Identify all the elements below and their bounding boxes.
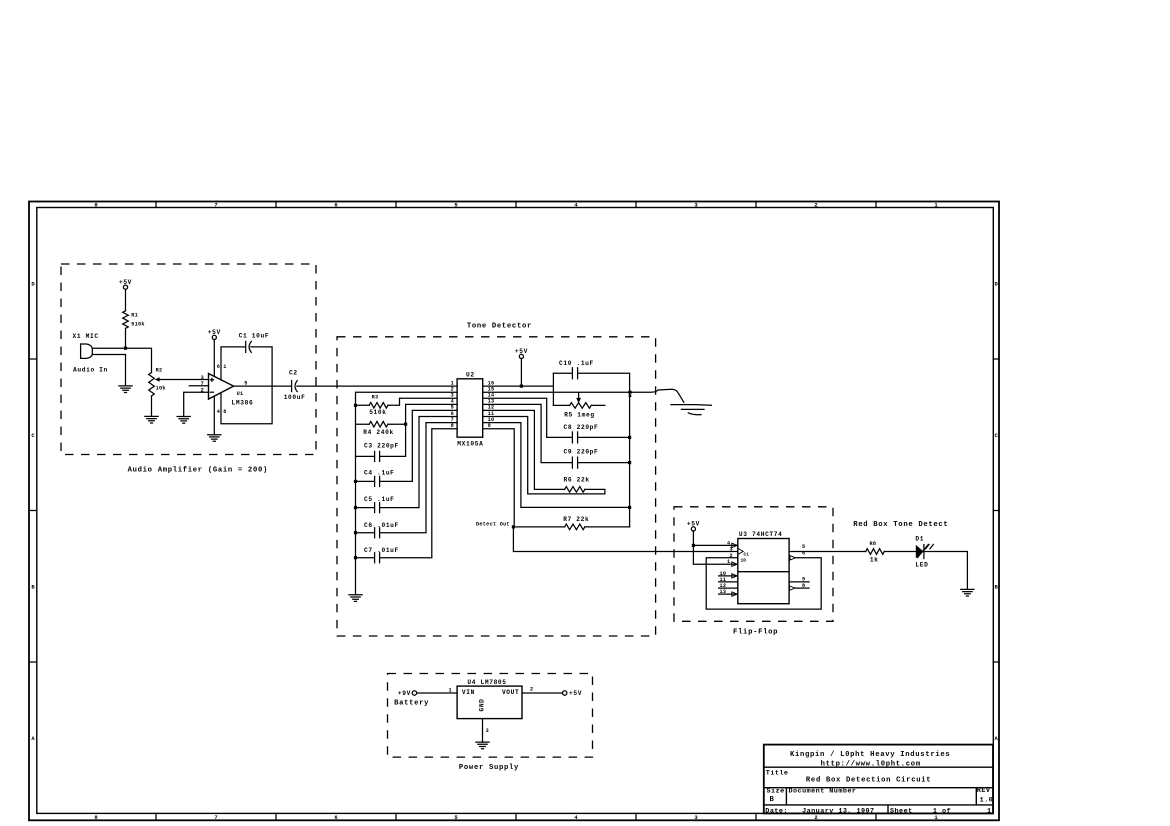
svg-text:B: B [770,796,775,804]
svg-text:11: 11 [720,577,727,583]
svg-text:Tone Detector: Tone Detector [467,323,532,331]
capacitor C2 [291,381,293,392]
svg-text:C1: C1 [744,551,750,557]
wire mic top to R2 node [92,348,151,372]
wire R2 to ground [151,396,153,416]
ground U1 pin2 [177,417,190,424]
node pin10 bus junction [628,506,631,509]
wire detect out to U3 clock [513,527,737,552]
svg-text:R1: R1 [131,313,138,319]
svg-text:R2: R2 [156,368,163,374]
svg-text:5: 5 [802,544,805,550]
IC U2 body [457,379,483,437]
svg-text:U2: U2 [466,371,475,378]
svg-text:1 of: 1 of [933,807,951,815]
svg-text:R5 1meg: R5 1meg [564,411,595,418]
regulator U4 body [457,686,522,719]
capacitor C1 [245,341,247,352]
R5 wiper [578,392,580,398]
node C4 bus junction [354,480,357,483]
node R4 right junction [404,423,407,426]
svg-text:2: 2 [530,687,533,693]
wire D1 cathode to ground [924,552,968,590]
resistor R6 [565,487,585,493]
U1 minus mark [210,391,213,393]
svg-text:Detect Out: Detect Out [476,521,510,527]
svg-text:+5V: +5V [515,348,528,355]
U3 pin8 bubble [790,586,795,590]
wire U2 pin14 to C8 [483,398,572,437]
ground R2 [145,416,158,423]
R2 wiper arrow [155,377,160,382]
svg-text:13: 13 [720,589,727,595]
U3 lower pin11 stub [719,581,738,583]
wire U2 pin13 to C9 [483,404,572,462]
border column numbers top [94,201,938,208]
IC U3 body [738,539,789,604]
U3 lower pin12 stub [719,587,738,589]
node mic/R1/R2 junction [124,347,127,350]
ground power supply [476,742,489,749]
resistor R7 [565,524,585,530]
svg-text:LM386: LM386 [232,399,254,406]
capacitor C6 [375,528,380,538]
svg-text:510k: 510k [131,321,145,327]
flip-flop section dashed box [674,507,833,622]
+5V output terminal [563,691,567,695]
U3 pin10 bubble [732,574,737,578]
C4 leads to U2 pin5 [356,410,458,481]
border zone ticks [29,202,999,821]
svg-text:6: 6 [334,814,337,821]
+9V battery terminal [412,691,416,695]
microphone X1 [81,344,93,358]
svg-text:C7 .01uF: C7 .01uF [364,547,399,554]
wire +5V to R1 [125,289,127,311]
C3 left lead [356,455,375,457]
U3 lower pin13 stub [719,593,738,595]
R5 leads [553,404,605,406]
wire R8 to D1 [884,551,916,553]
svg-text:1: 1 [449,687,452,693]
C7 leads to U2 pin8 [356,429,458,558]
svg-text:+5V: +5V [208,329,221,336]
wire +5V to U2 pin16 line [520,359,522,387]
wire R2 wiper to U1 pin3 [159,379,208,381]
svg-text:Red Box Detection Circuit: Red Box Detection Circuit [806,777,931,785]
+5V supply mic bias [123,285,127,289]
U3 pin1 bubble [732,562,737,566]
ground U1 pin4 [208,435,221,442]
R6 right lead to U2 pin11 [483,417,605,494]
wire mic bottom to ground [92,355,125,386]
svg-text:100uF: 100uF [284,394,306,401]
node +5V pin4 junction [692,544,695,547]
svg-text:C3 220pF: C3 220pF [364,443,399,450]
svg-text:1.0: 1.0 [980,796,994,804]
D1 emission arrows [918,544,934,557]
svg-text:7: 7 [214,201,217,208]
capacitor C7 [375,553,380,563]
op-amp U1 triangle [209,374,234,400]
R4 leads [356,423,406,425]
node R3 left junction [354,404,357,407]
C5 leads to U2 pin6 [356,417,458,508]
svg-text:3: 3 [730,546,733,552]
node C9 bus junction [628,461,631,464]
svg-text:R3: R3 [372,395,379,401]
svg-text:6: 6 [217,364,220,370]
svg-text:Battery: Battery [394,700,429,708]
wire +5V to U1 pin6 [213,340,215,377]
U2 left pin numbers 1-8 [451,380,454,429]
U3 pin13 bubble [732,592,737,596]
U3 lower pin10 stub [719,575,738,577]
ground left bus [349,595,362,602]
resistor R1 [123,311,129,329]
svg-text:R6 22k: R6 22k [564,477,590,484]
resistor R3 [369,403,388,409]
wire U2 pin15 [483,391,630,393]
U3 pin9 stub [789,581,809,583]
svg-text:R8: R8 [870,541,877,547]
svg-text:+9V: +9V [398,690,411,697]
U3 pin4 bubble [732,543,737,547]
node pin15 junction [628,391,631,394]
C6 leads to U2 pin7 [356,423,458,533]
wire C10/R5 left vertical [552,373,554,405]
wire U1 pin4 to ground [213,396,215,435]
svg-text:U3 74HCT74: U3 74HCT74 [739,531,783,538]
sheet outer border [29,202,999,821]
svg-text:1: 1 [727,559,730,565]
svg-text:9: 9 [802,577,805,583]
audio amplifier section dashed box [61,264,316,455]
node pin16 +5V junction [520,385,523,388]
+5V supply tone detector [519,354,523,358]
svg-text:U1: U1 [237,391,244,397]
svg-text:3: 3 [486,728,489,734]
svg-text:510k: 510k [369,409,386,416]
svg-text:6: 6 [334,201,337,208]
capacitor C5 [375,503,380,513]
svg-text:X1 MIC: X1 MIC [73,333,99,340]
R7 leads [513,526,629,528]
node C8 bus junction [628,436,631,439]
svg-text:4: 4 [217,409,220,415]
svg-text:8: 8 [802,583,805,589]
wire U2 pin16 [483,385,554,387]
wire C1 to U1 pin8 loop [221,347,272,424]
wire U2 pin12 to R6 [483,410,565,489]
node C6 bus junction [354,531,357,534]
svg-text:8: 8 [223,409,226,415]
svg-text:Kingpin / L0pht Heavy Industri: Kingpin / L0pht Heavy Industries [790,751,950,759]
tone detector section dashed box [337,337,656,636]
svg-text:Size: Size [767,788,785,796]
R3 leads [356,398,458,405]
wire right bus [629,392,631,527]
node C7 bus junction [354,556,357,559]
potentiometer R2 [149,373,155,397]
wire U2 pin9 to detect node [483,429,515,527]
ground mic [119,386,132,393]
svg-text:C5 .1uF: C5 .1uF [364,496,395,503]
svg-text:+5V: +5V [687,521,700,528]
svg-text:GND: GND [479,698,486,711]
wire U1 pin2 to ground [184,392,209,416]
svg-text:U4 LM7805: U4 LM7805 [467,679,506,686]
svg-text:LED: LED [915,562,928,569]
svg-text:3: 3 [201,375,204,381]
node R7 detect junction [512,525,515,528]
svg-text:Audio In: Audio In [73,367,108,374]
wire C2 to U2 pin1 [297,385,457,387]
wire U4 GND to ground [482,719,484,743]
svg-text:R4 240k: R4 240k [363,429,394,436]
wire U4 VOUT to +5V [522,692,563,694]
border row letters right [995,281,999,742]
svg-text:7: 7 [214,814,217,821]
svg-text:C4 .1uF: C4 .1uF [364,470,395,477]
U3 pin8 stub [795,587,809,589]
svg-text:REV: REV [977,787,991,795]
capacitor C4 [375,476,380,486]
wire U2 pin4 to C3 [380,404,457,456]
capacitor C3 [375,451,380,461]
capacitor C9 [572,457,577,468]
potentiometer R5 [570,403,592,409]
svg-text:Sheet: Sheet [890,807,913,815]
svg-text:4: 4 [727,540,730,546]
svg-text:1: 1 [223,364,226,370]
wire +5V to U3 pins 4 and 1 [693,531,737,564]
svg-text:C8 220pF: C8 220pF [564,424,599,431]
border column numbers bottom [94,814,938,821]
svg-text:1: 1 [987,807,992,815]
LED D1 [916,545,924,558]
ground LED [961,589,974,596]
title block frame [764,745,993,814]
svg-text:VOUT: VOUT [502,689,519,696]
wire U1 output to C2 [234,385,291,387]
wire squiggle to earth [630,389,684,402]
svg-text:C6 .01uF: C6 .01uF [364,522,399,529]
earth sketch [671,405,711,415]
svg-text:VIN: VIN [462,689,475,696]
svg-text:Red Box Tone Detect: Red Box Tone Detect [853,521,948,529]
sheet inner border [37,208,994,814]
power supply section dashed box [388,674,593,758]
wire +9V to U4 VIN [417,692,458,694]
svg-text:+5V: +5V [569,690,582,697]
svg-text:C10 .1uF: C10 .1uF [559,360,594,367]
svg-text:January 13, 1997: January 13, 1997 [802,807,874,815]
U2 right pin numbers 16-9 [488,380,495,429]
svg-text:C9 220pF: C9 220pF [564,449,599,456]
svg-text:MX105A: MX105A [457,440,483,447]
svg-text:Document Number: Document Number [789,788,857,796]
svg-text:10k: 10k [156,385,166,391]
+5V supply op-amp [212,335,216,339]
svg-text:C2: C2 [289,370,298,377]
C9 right lead [578,462,629,464]
node C5 bus junction [354,506,357,509]
wire U2 pin10 to bus [483,423,630,508]
C10 leads [553,373,629,392]
svg-text:http://www.l0pht.com: http://www.l0pht.com [821,761,921,769]
wire U3 pin2 feedback loop [706,558,821,609]
svg-text:D1: D1 [915,535,924,542]
+5V supply flip-flop [691,527,695,531]
capacitor C8 [572,432,577,443]
svg-text:R7 22k: R7 22k [563,516,589,523]
resistor R4 [369,421,388,427]
U3 clock mark [738,549,743,555]
svg-text:Power Supply: Power Supply [459,764,519,772]
svg-text:2: 2 [814,201,817,208]
U3 pin6 bubble [790,556,795,560]
svg-text:Flip-Flop: Flip-Flop [733,628,778,636]
svg-text:C1 10uF: C1 10uF [239,333,270,340]
R5 wiper arrow [576,398,581,403]
svg-text:Date:: Date: [765,807,788,815]
wire U2 pin2 / left bus to ground [356,392,458,595]
wire U3 pin5 Q to R8 [789,551,866,553]
wire R1 to mic node [125,328,127,348]
C8 right lead [578,436,629,438]
svg-text:Title: Title [766,770,789,778]
svg-text:1k: 1k [870,556,879,563]
wire U1 pin1 to C1 [221,347,245,380]
svg-text:+5V: +5V [119,279,132,286]
U1 plus mark [210,378,213,381]
border row letters left [31,281,35,742]
svg-text:Audio Amplifier (Gain = 200): Audio Amplifier (Gain = 200) [128,466,268,474]
svg-text:1D: 1D [741,557,747,563]
capacitor C10 [572,368,577,379]
resistor R8 [866,549,885,555]
U1 pin7 stub [189,385,208,387]
svg-text:1: 1 [451,380,454,386]
